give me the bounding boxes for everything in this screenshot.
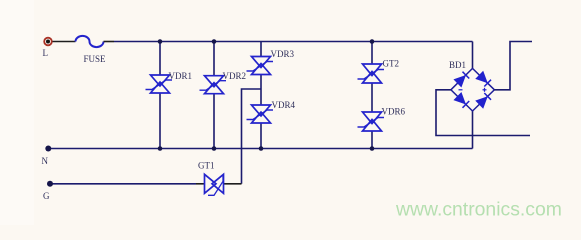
diode BD1 top-left	[454, 72, 469, 87]
svg-text:BD1: BD1	[449, 60, 466, 70]
svg-text:VDR2: VDR2	[223, 71, 247, 81]
wire tap VDR3/VDR4 midpoint down to GT1	[242, 89, 262, 184]
wire G line to GT1 left pin	[196, 183, 205, 185]
varistor VDR2	[200, 76, 227, 94]
junction N rail / VDR4 branch	[259, 146, 264, 151]
wire VDR2 branch	[213, 42, 215, 149]
bridge BD1 diamond	[451, 68, 495, 111]
diode BD1 top-right	[476, 72, 491, 87]
wire GT1 right pin	[224, 183, 242, 185]
svg-text:www.cntronics.com: www.cntronics.com	[395, 199, 562, 221]
wire N rail	[48, 148, 472, 150]
junction L rail / VDR2 branch	[212, 39, 217, 44]
svg-text:N: N	[42, 156, 49, 166]
wire VDR3/VDR4 branch	[260, 42, 262, 149]
svg-text:G: G	[43, 191, 50, 201]
junction N rail / VDR6 branch	[370, 146, 375, 151]
wire L-terminal to fuse	[53, 41, 76, 43]
diode BD1 bottom-left	[454, 93, 469, 108]
gas tube GT2	[358, 64, 385, 83]
varistor VDR4	[247, 105, 274, 123]
wire L rail (to BD1 top branch)	[114, 41, 473, 43]
diode BD1 bottom-right	[476, 93, 491, 108]
junction N rail / VDR1 branch	[158, 146, 163, 151]
fuse FUSE (squiggle)	[76, 36, 104, 47]
terminal N	[45, 146, 51, 152]
wire DC- output	[436, 90, 530, 136]
wire DC+ output	[494, 42, 532, 90]
terminal G	[47, 181, 53, 187]
varistor VDR3	[247, 57, 274, 75]
wire VDR1 branch	[159, 42, 161, 149]
svg-text:FUSE: FUSE	[84, 54, 107, 64]
svg-text:GT2: GT2	[383, 59, 400, 69]
wire G line	[50, 183, 196, 185]
gas tube GT1	[205, 174, 224, 195]
junction L rail / GT2 branch	[370, 39, 375, 44]
junction L rail / VDR1 branch	[158, 39, 163, 44]
varistor VDR1	[146, 75, 173, 93]
svg-text:L: L	[43, 48, 49, 58]
wire GT2/VDR6 branch	[371, 42, 373, 149]
terminal L	[44, 38, 52, 46]
svg-text:VDR1: VDR1	[169, 71, 193, 81]
wire BD1 top branch	[472, 42, 474, 69]
svg-text:VDR4: VDR4	[272, 100, 296, 110]
minus polarity mark	[459, 89, 463, 91]
varistor VDR6	[358, 112, 385, 131]
svg-text:VDR6: VDR6	[382, 107, 406, 117]
plus polarity mark	[483, 88, 487, 92]
wire BD1 bottom branch	[472, 111, 474, 149]
junction N rail / VDR2 branch	[212, 146, 217, 151]
svg-text:VDR3: VDR3	[271, 49, 295, 59]
svg-text:GT1: GT1	[198, 161, 215, 171]
wire fuse to L rail	[104, 41, 115, 43]
